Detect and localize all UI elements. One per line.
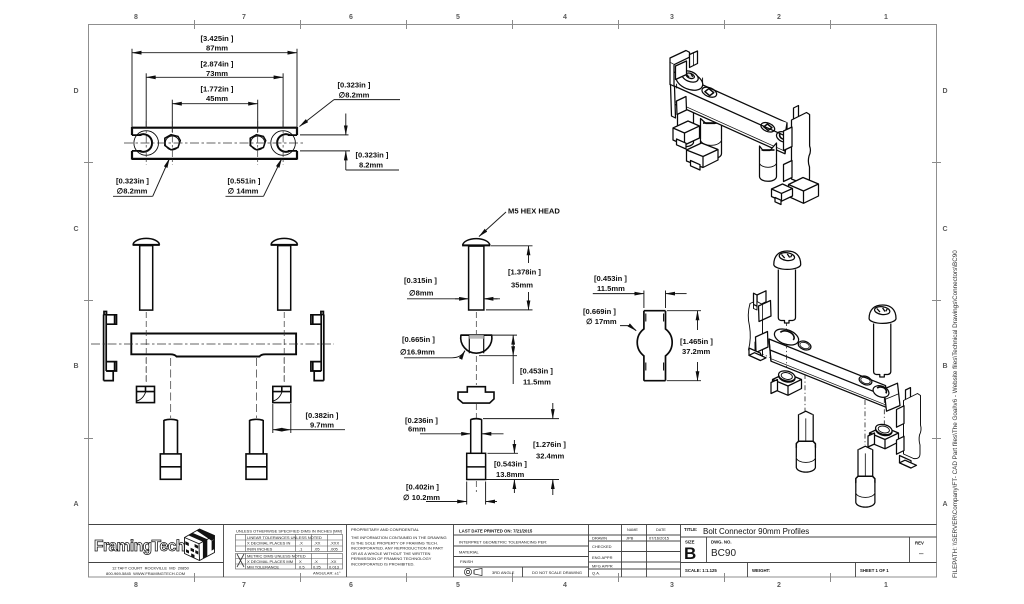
svg-text:∅8.2mm: ∅8.2mm (117, 186, 148, 195)
svg-text:[0.665in ]: [0.665in ] (402, 335, 435, 344)
svg-text:9.7mm: 9.7mm (310, 420, 334, 429)
centre block (459, 529, 582, 576)
13.8 (488, 453, 521, 479)
standoff right (246, 419, 267, 479)
svg-text:5: 5 (456, 14, 460, 21)
right clip (311, 312, 324, 381)
svg-text:FILEPATH: \\SERVER\Company\FT-: FILEPATH: \\SERVER\Company\FT- CAD Part … (952, 250, 959, 578)
svg-text:SHEET 1 OF 1: SHEET 1 OF 1 (860, 568, 889, 573)
lower left leader 8.2 (113, 195, 153, 197)
svg-text:NAME: NAME (627, 528, 638, 532)
73mm dim (145, 73, 147, 128)
svg-text:[0.669in ]: [0.669in ] (583, 307, 616, 316)
svg-text:INCORPORATED IS PROHIBITED.: INCORPORATED IS PROHIBITED. (351, 562, 415, 567)
assembly dashed lines (749, 319, 884, 446)
svg-text:MFG APPR: MFG APPR (592, 564, 613, 569)
svg-text:6mm: 6mm (408, 425, 426, 434)
svg-text:Q.A.: Q.A. (592, 571, 600, 576)
svg-text:11.5mm: 11.5mm (523, 378, 551, 387)
svg-text:WEIGHT:: WEIGHT: (752, 568, 771, 573)
centerlines view3 (475, 312, 477, 492)
svg-text:07/16/2015: 07/16/2015 (649, 536, 670, 541)
svg-text:8: 8 (134, 14, 138, 21)
hex hole left (165, 136, 179, 150)
bolt 2 (869, 305, 896, 377)
svg-text:–: – (919, 549, 924, 558)
svg-text:∅ 17mm: ∅ 17mm (586, 317, 617, 326)
name/date block (592, 528, 670, 576)
svg-text:[0.453in ]: [0.453in ] (520, 367, 553, 376)
svg-text:2: 2 (777, 14, 781, 21)
svg-text:.XX: .XX (330, 559, 337, 564)
centerlines view2 (91, 312, 334, 418)
45mm dim (171, 100, 173, 132)
svg-text:ENG APPR: ENG APPR (592, 555, 613, 560)
T-nut left small (137, 386, 155, 402)
svg-text:IN/IN INCHES: IN/IN INCHES (247, 546, 273, 551)
T-nut right small (273, 386, 291, 402)
svg-text:CHECKED: CHECKED (592, 544, 612, 549)
svg-text:PERMISSION OF FRAMING TECHNOLO: PERMISSION OF FRAMING TECHNOLOGY (351, 556, 432, 561)
svg-text:73mm: 73mm (206, 69, 228, 78)
Ø10.2 (467, 482, 486, 505)
svg-text:ANGULAR: ±1°: ANGULAR: ±1° (313, 571, 341, 576)
svg-text:[0.323in ]: [0.323in ] (356, 151, 389, 160)
title area (684, 527, 924, 573)
standoff 1 (796, 411, 815, 472)
svg-text:6: 6 (349, 582, 353, 589)
left foot wedge 2 (687, 143, 719, 170)
svg-text:LINEAR TOLERANCES UNLESS NOTED: LINEAR TOLERANCES UNLESS NOTED (247, 535, 322, 540)
svg-text:3: 3 (670, 14, 674, 21)
svg-text:PROPRIETARY AND CONFIDENTIAL: PROPRIETARY AND CONFIDENTIAL (351, 527, 420, 532)
square hole 1 (701, 85, 719, 99)
right 8.2 vertical dim (300, 135, 350, 151)
standoff 2 (856, 446, 875, 507)
bar 3D box (769, 339, 888, 408)
Ø16.9 leader (404, 351, 465, 358)
right clip (784, 106, 811, 184)
35mm (486, 246, 533, 310)
standoff left (160, 419, 181, 479)
dimensions view1 (113, 49, 400, 197)
svg-text:A: A (942, 501, 947, 508)
svg-text:DRAWN: DRAWN (592, 536, 607, 541)
svg-text:[0.402in ]: [0.402in ] (406, 483, 439, 492)
87mm dim (131, 49, 133, 134)
end slot ring (775, 130, 792, 145)
Ø8 (407, 298, 500, 300)
boss on bar top (673, 68, 705, 94)
svg-text:.X: .X (299, 541, 303, 546)
svg-text:.XX: .XX (314, 541, 321, 546)
svg-text:[0.382in ]: [0.382in ] (306, 411, 339, 420)
left foot wedge (673, 121, 700, 149)
svg-text:FINISH: FINISH (460, 559, 473, 564)
svg-text:B: B (73, 363, 78, 370)
svg-text:[0.543in ]: [0.543in ] (494, 460, 527, 469)
32.4 (483, 419, 559, 480)
svg-text:[0.551in ]: [0.551in ] (228, 177, 261, 186)
square hole 2 (760, 121, 776, 134)
zone ticks top/bottom (84, 20, 941, 582)
left C ring (134, 131, 159, 156)
svg-text:[0.323in ]: [0.323in ] (338, 81, 371, 90)
tolerance block (236, 529, 343, 576)
T-nut 2 (868, 423, 899, 449)
svg-text:TITLE:: TITLE: (684, 527, 698, 532)
svg-text:INTERPRET GEOMETRIC TOLERANCIN: INTERPRET GEOMETRIC TOLERANCING PER: (459, 540, 547, 545)
svg-text:OR AS A WHOLE WITHOUT THE WRIT: OR AS A WHOLE WITHOUT THE WRITTEN (351, 551, 431, 556)
svg-text:[0.323in ]: [0.323in ] (116, 177, 149, 186)
svg-text:4: 4 (563, 14, 567, 21)
svg-text:∅ 14mm: ∅ 14mm (228, 186, 259, 195)
svg-text:X: X (299, 559, 302, 564)
svg-text:BC90: BC90 (711, 548, 736, 559)
svg-text:C: C (942, 226, 947, 233)
svg-text:87mm: 87mm (206, 44, 228, 53)
zone numbers bottom (134, 582, 888, 589)
svg-text:32.4mm: 32.4mm (536, 452, 565, 461)
border frame (89, 25, 937, 578)
right clip foot (772, 178, 819, 205)
svg-text:MM TOLERANCE: MM TOLERANCE (247, 564, 279, 569)
svg-text:[1.772in ]: [1.772in ] (201, 85, 234, 94)
right cylinder under bar (760, 143, 777, 181)
svg-text:DATE: DATE (656, 528, 666, 532)
svg-text:B: B (942, 363, 947, 370)
svg-text:.05: .05 (314, 546, 320, 551)
svg-text:∅8mm: ∅8mm (409, 289, 434, 298)
6mm (420, 433, 504, 435)
standoff bottom (467, 419, 486, 480)
svg-text:M5 HEX HEAD: M5 HEX HEAD (508, 207, 560, 216)
svg-text:REV: REV (915, 541, 924, 546)
right 8.2 slot leader (334, 99, 400, 101)
svg-text:11.5mm: 11.5mm (597, 284, 625, 293)
svg-text:0.5: 0.5 (299, 564, 305, 569)
svg-text:37.2mm: 37.2mm (682, 347, 711, 356)
svg-text:DO NOT SCALE DRAWING: DO NOT SCALE DRAWING (532, 570, 582, 575)
cube logo (185, 529, 215, 561)
bolt left (133, 238, 160, 310)
svg-text:D: D (73, 88, 78, 95)
projection symbol (464, 568, 482, 575)
svg-text:3RD ANGLE: 3RD ANGLE (492, 570, 515, 575)
svg-text:3: 3 (670, 582, 674, 589)
svg-text:FramingTech: FramingTech (94, 538, 185, 555)
svg-text:0.25: 0.25 (313, 564, 322, 569)
dims view3 (404, 246, 559, 505)
9.7mm dim (273, 404, 345, 433)
svg-text:[0.453in ]: [0.453in ] (594, 274, 627, 283)
bar 3D box (672, 72, 787, 154)
centerlines (124, 121, 305, 165)
svg-text:13.8mm: 13.8mm (496, 470, 525, 479)
left clip (670, 51, 698, 119)
svg-text:7: 7 (242, 582, 246, 589)
svg-text:JPB: JPB (626, 536, 634, 541)
svg-text:12 TAFT COURT ROCKVILLE MD: 12 TAFT COURT ROCKVILLE MD 20850 (112, 566, 190, 571)
svg-text:SCALE: 1:1.125: SCALE: 1:1.125 (685, 568, 717, 573)
bolt right (271, 238, 298, 310)
svg-text:800-969-5845 WWW.FRAMINGTECH.: 800-969-5845 WWW.FRAMINGTECH.COM (106, 571, 185, 576)
svg-text:LAST DATE PRINTED ON: 7/21/201: LAST DATE PRINTED ON: 7/21/2015 (459, 529, 533, 534)
right C ring (271, 131, 296, 156)
svg-text:[3.425in ]: [3.425in ] (201, 34, 234, 43)
T-nut 1 (771, 369, 802, 395)
lower mid leader 14 (226, 195, 264, 197)
svg-text:METRIC DIMS UNLESS NOTED: METRIC DIMS UNLESS NOTED (247, 554, 306, 559)
svg-text:X DECIMAL PLACES MM: X DECIMAL PLACES MM (247, 559, 293, 564)
svg-text:0.013: 0.013 (329, 564, 340, 569)
end plate right (884, 383, 900, 411)
svg-text:8.2mm: 8.2mm (359, 160, 383, 169)
svg-text:∅8.2mm: ∅8.2mm (339, 91, 370, 100)
proprietary block (351, 527, 447, 567)
svg-text:D: D (942, 88, 947, 95)
svg-text:45mm: 45mm (206, 94, 228, 103)
left clip exploded (748, 291, 771, 361)
T-nut middle (458, 387, 494, 403)
svg-text:35mm: 35mm (511, 281, 533, 290)
left back cylinder under bar (678, 105, 694, 147)
svg-text:X DECIMAL PLACES IN: X DECIMAL PLACES IN (247, 541, 291, 546)
11.5 (479, 335, 517, 356)
svg-text:.X: .X (314, 559, 318, 564)
svg-text:[2.874in ]: [2.874in ] (201, 60, 234, 69)
svg-text:Bolt Connector 90mm Profiles: Bolt Connector 90mm Profiles (703, 527, 809, 536)
svg-text:DWG. NO.: DWG. NO. (711, 540, 732, 545)
bar (131, 334, 296, 357)
bolt (462, 239, 490, 310)
left front cylinder under bar (701, 116, 722, 160)
svg-text:[0.315in ]: [0.315in ] (404, 276, 437, 285)
hex hole b (858, 374, 873, 386)
svg-text:A: A (73, 501, 78, 508)
zone letters left (73, 88, 78, 508)
svg-text:MATERIAL: MATERIAL (459, 550, 479, 555)
svg-text:UNLESS OTHERWISE SPECIFIED DIM: UNLESS OTHERWISE SPECIFIED DIMS IN INCHE… (236, 529, 342, 534)
svg-text:IS THE SOLE PROPERTY OF FRAMIN: IS THE SOLE PROPERTY OF FRAMING TECH. (351, 540, 438, 545)
svg-text:8: 8 (134, 582, 138, 589)
slot lips (132, 135, 297, 151)
svg-text:[1.276in ]: [1.276in ] (533, 440, 566, 449)
svg-text:6: 6 (349, 14, 353, 21)
zone letters right (942, 88, 947, 508)
svg-text:1: 1 (884, 582, 888, 589)
right clip exploded (897, 388, 922, 468)
left end slot ring on bar (772, 326, 801, 348)
svg-text:7: 7 (242, 14, 246, 21)
svg-text:[1.465in ]: [1.465in ] (680, 337, 713, 346)
dome washer (460, 335, 492, 353)
bolt 1 (774, 251, 801, 323)
svg-text:∅16.9mm: ∅16.9mm (400, 348, 435, 357)
left clip (104, 312, 117, 381)
svg-text:[1.378in ]: [1.378in ] (508, 268, 541, 277)
FramingTech logo (94, 529, 215, 576)
dims view4 (593, 291, 701, 381)
hex hole a (797, 339, 812, 351)
svg-text:4: 4 (563, 582, 567, 589)
svg-text:THE INFORMATION CONTAINED IN T: THE INFORMATION CONTAINED IN THE DRAWING (351, 535, 447, 540)
svg-text:∅ 10.2mm: ∅ 10.2mm (403, 493, 440, 502)
plate outline (132, 127, 297, 160)
right end slot ring on bar (871, 384, 890, 400)
svg-text:1: 1 (884, 14, 888, 21)
hex hole right (251, 136, 265, 150)
svg-text:B: B (684, 544, 696, 563)
svg-text:INCORPORATED. ANY REPRODUCTION: INCORPORATED. ANY REPRODUCTION IN PART (351, 546, 444, 551)
svg-text:C: C (73, 226, 78, 233)
svg-text:5: 5 (456, 582, 460, 589)
zone numbers top (134, 14, 888, 21)
svg-text:.XXX: .XXX (330, 541, 339, 546)
svg-text:.005: .005 (330, 546, 339, 551)
svg-text:2: 2 (777, 582, 781, 589)
